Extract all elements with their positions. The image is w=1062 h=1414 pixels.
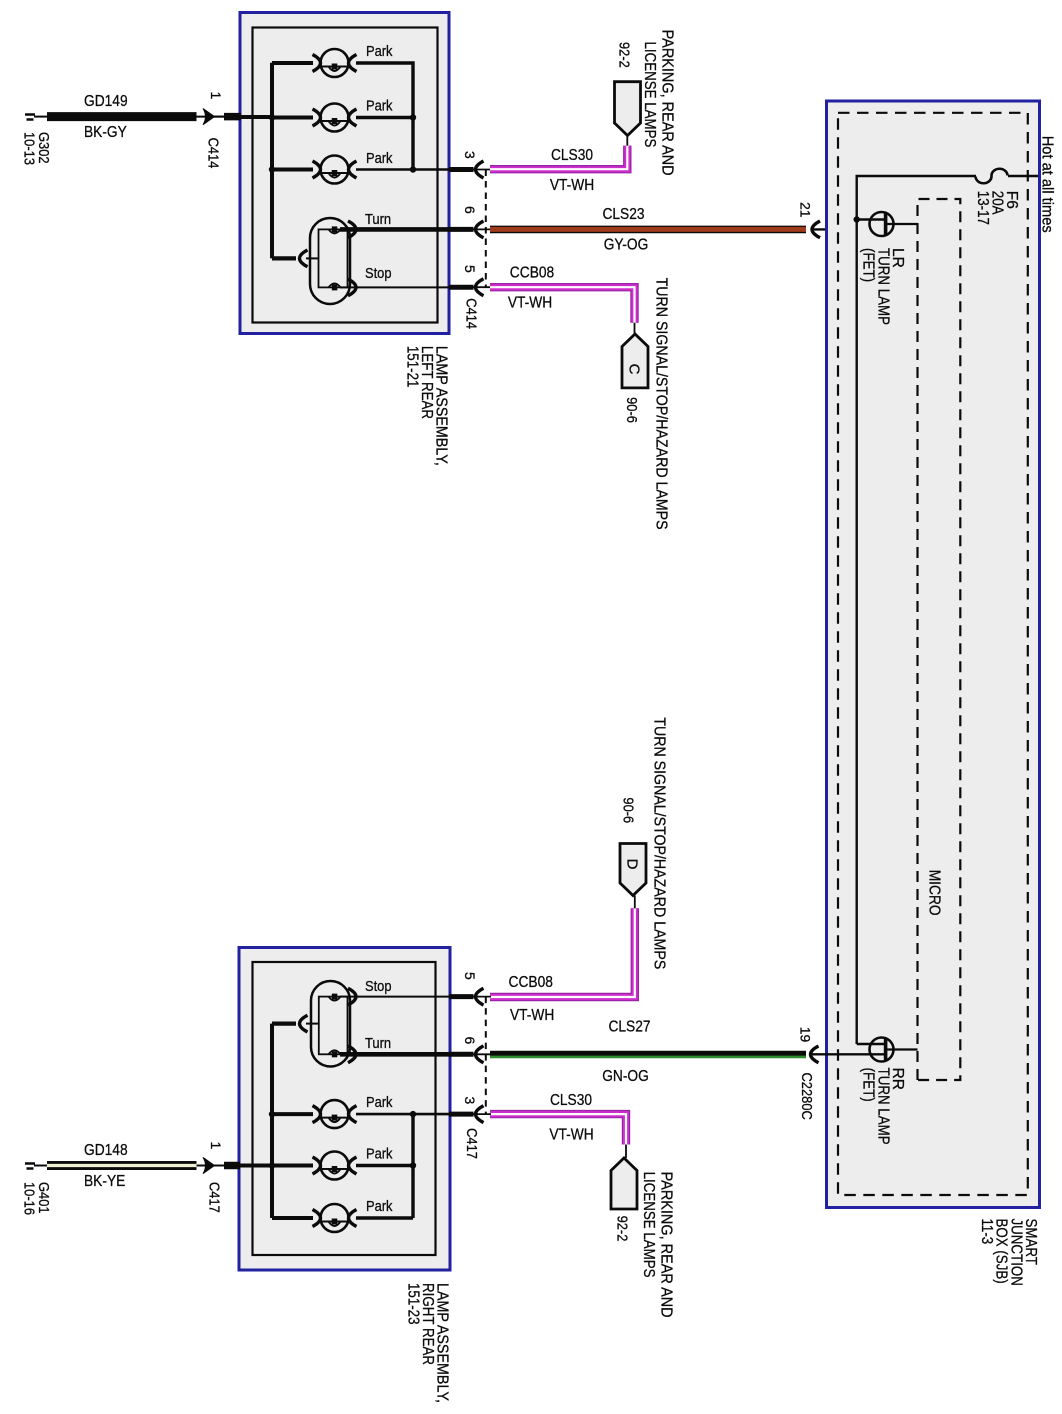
wire turn filament to pin 6 (right rear): [340, 1052, 449, 1057]
wire battery feed: [1008, 175, 1038, 177]
off-page connector D 90-6: [620, 797, 647, 908]
lamp assembly right rear box: [239, 948, 450, 1271]
svg-text:(FET): (FET): [860, 1068, 877, 1102]
off-page connector 92-2 parking lamps (top): [615, 42, 641, 146]
svg-text:VT-WH: VT-WH: [508, 295, 552, 312]
wire feed to LR FET: [857, 218, 884, 220]
wire stop filament to pin 5 (right rear): [340, 996, 449, 998]
svg-text:21: 21: [798, 202, 814, 218]
svg-text:Park: Park: [366, 150, 393, 167]
park bulb 3 (left rear): [313, 156, 357, 184]
svg-text:PARKING, REAR AND: PARKING, REAR AND: [658, 1172, 675, 1318]
svg-text:Park: Park: [366, 1094, 393, 1111]
wire CLS27 GN-OG (right rear turn): [490, 1054, 806, 1057]
wire stub park2 left: [272, 116, 313, 120]
svg-text:10-13: 10-13: [21, 132, 38, 165]
svg-text:1: 1: [208, 92, 224, 100]
svg-text:BK-GY: BK-GY: [84, 124, 127, 141]
svg-text:LICENSE LAMPS: LICENSE LAMPS: [641, 42, 658, 148]
svg-text:Park: Park: [366, 1198, 393, 1215]
svg-text:C414: C414: [205, 138, 222, 169]
svg-text:Stop: Stop: [365, 265, 392, 282]
park bulb 2 (left rear): [313, 104, 357, 132]
svg-text:LICENSE LAMPS: LICENSE LAMPS: [640, 1172, 657, 1278]
svg-text:VT-WH: VT-WH: [549, 1127, 593, 1144]
pin 6 stub and arrow: [449, 206, 491, 238]
smart junction box SJB: [827, 101, 1040, 1208]
svg-text:Stop: Stop: [365, 978, 392, 995]
svg-text:C2280C: C2280C: [798, 1073, 815, 1120]
connector C414 pin 1: [203, 92, 241, 169]
wire GD149 BK-GY (ground, left rear): [47, 112, 197, 121]
wire right bus lower (left rear lamp): [411, 118, 414, 170]
svg-text:10-16: 10-16: [21, 1182, 38, 1215]
wire feed to RR FET: [857, 1043, 884, 1045]
label PARKING, REAR AND LICENSE LAMPS (top): [641, 30, 676, 176]
label LR TURN LAMP (FET): [860, 248, 906, 325]
svg-text:92-2: 92-2: [614, 1216, 631, 1242]
ground symbol G401: [21, 1164, 53, 1216]
svg-text:CLS27: CLS27: [608, 1019, 650, 1036]
wire park2 right: [356, 116, 413, 119]
label F6 20A 13-17: [974, 191, 1020, 225]
svg-text:TURN SIGNAL/STOP/HAZARD LAMPS: TURN SIGNAL/STOP/HAZARD LAMPS: [651, 717, 668, 969]
node junction dot right bus park1 (right rear): [410, 1111, 416, 1117]
park bulb 2 (right rear): [313, 1152, 357, 1180]
svg-text:GY-OG: GY-OG: [604, 237, 649, 254]
svg-text:6: 6: [462, 206, 478, 214]
connector C417 pin 1: [203, 1142, 240, 1213]
svg-text:GD148: GD148: [84, 1142, 128, 1159]
svg-text:BK-YE: BK-YE: [84, 1173, 125, 1190]
pin 3 stub and arrow: [449, 151, 491, 178]
wire ground feed into right lamp box: [240, 1164, 272, 1168]
svg-text:90-6: 90-6: [620, 797, 637, 823]
label PARKING, REAR AND LICENSE LAMPS (bottom): [640, 1172, 675, 1318]
transistor RR TURN LAMP (FET): [870, 1038, 918, 1062]
wire CLS30 VT-WH (left rear park feed): [490, 146, 627, 170]
wire stub park3 left: [272, 168, 313, 172]
svg-text:151-23: 151-23: [404, 1283, 421, 1325]
svg-text:C: C: [626, 364, 643, 375]
wire right bus (right rear lamp): [356, 1114, 413, 1218]
node junction dot left bus park2: [269, 114, 275, 120]
wire ground feed into left lamp box: [240, 115, 272, 119]
wire stub park1 left (right rear): [272, 1112, 313, 1116]
wire park1 to pin 3 (right rear): [356, 1113, 449, 1116]
node junction dot left bus park1 (right rear): [269, 1111, 275, 1117]
connector C417 (pins 5,6,3) dashed line: [485, 997, 487, 1115]
wire CLS23 GY-OG (left rear turn): [490, 226, 806, 234]
wire CCB08 VT-WH (right rear stop): [490, 908, 635, 997]
node junction dot right bus park2 (right rear): [410, 1162, 416, 1168]
svg-text:5: 5: [462, 265, 478, 273]
node junction dot feed LR: [854, 216, 860, 222]
wire CCB08 VT-WH (left rear stop): [490, 287, 635, 323]
label LAMP ASSEMBLY, RIGHT REAR 151-23: [404, 1283, 450, 1403]
transistor LR TURN LAMP (FET): [870, 212, 918, 236]
svg-text:CCB08: CCB08: [509, 974, 553, 991]
svg-text:92-2: 92-2: [616, 42, 633, 68]
wire turn filament to pin 6: [340, 227, 449, 232]
node junction dot left bus park3: [269, 166, 275, 172]
svg-text:6: 6: [462, 1037, 478, 1045]
svg-text:Turn: Turn: [365, 211, 391, 228]
wire GD148 BK-YE (ground, right rear): [47, 1161, 224, 1170]
pin 3 stub and arrow (right rear): [449, 1097, 491, 1123]
svg-text:90-6: 90-6: [623, 397, 640, 423]
connector C414 (pins 3,6,5) dashed line: [485, 170, 487, 288]
pin 6 stub and arrow (right rear): [449, 1037, 491, 1063]
off-page connector 92-2 parking lamps (bottom): [611, 1145, 637, 1242]
ground symbol G302: [21, 115, 53, 166]
node junction dot left bus park2 (right rear): [269, 1162, 275, 1168]
svg-text:PARKING, REAR AND: PARKING, REAR AND: [659, 30, 676, 176]
pin 5 stub and arrow (right rear): [449, 972, 491, 1005]
svg-text:CLS30: CLS30: [550, 1092, 592, 1109]
svg-text:C417: C417: [463, 1128, 480, 1159]
park bulb 1 (right rear): [313, 1100, 357, 1128]
svg-text:(FET): (FET): [860, 248, 877, 282]
svg-text:TURN SIGNAL/STOP/HAZARD LAMPS: TURN SIGNAL/STOP/HAZARD LAMPS: [653, 278, 670, 530]
svg-text:Park: Park: [366, 98, 393, 115]
svg-text:19: 19: [798, 1027, 814, 1043]
turn/stop dual filament bulb (left rear): [310, 218, 350, 304]
turn/stop dual filament bulb (right rear): [311, 981, 350, 1067]
node junction dot right bus park3: [410, 166, 416, 172]
svg-text:5: 5: [462, 972, 478, 980]
wire park3 to pin 3: [356, 168, 449, 171]
wire park1 right to right bus: [356, 63, 413, 118]
svg-text:C414: C414: [463, 298, 480, 329]
wire CLS30 VT-WH (right rear park feed): [490, 1114, 626, 1144]
svg-text:Turn: Turn: [365, 1035, 391, 1052]
wire stub park2 left (right rear): [272, 1164, 313, 1168]
svg-text:D: D: [624, 859, 641, 870]
label LAMP ASSEMBLY, LEFT REAR 151-21: [403, 346, 449, 466]
node junction dot right bus park2: [410, 114, 416, 120]
wire stub park3 left (right rear): [272, 1216, 313, 1220]
svg-text:CLS23: CLS23: [602, 206, 644, 223]
label SMART JUNCTION BOX (SJB) 11-3: [978, 1219, 1039, 1286]
park bulb 1 (left rear): [313, 49, 357, 77]
wire stop filament to pin 5: [340, 286, 449, 288]
svg-text:13-17: 13-17: [974, 191, 991, 225]
svg-text:GN-OG: GN-OG: [602, 1068, 649, 1085]
wire left bus (right rear lamp): [270, 1024, 274, 1218]
wire fused feed bus: [857, 176, 976, 1044]
fuse F6 20A: [976, 169, 1008, 184]
svg-text:VT-WH: VT-WH: [550, 177, 594, 194]
lamp assembly left rear box: [240, 13, 449, 334]
SJB pin 19 arrow and C2280C: [798, 1027, 885, 1120]
svg-text:11-3: 11-3: [978, 1219, 995, 1245]
svg-text:VT-WH: VT-WH: [510, 1007, 554, 1024]
wire stub park1 left: [272, 61, 313, 65]
wire stadium left arrow to bus (right rear): [272, 1021, 296, 1025]
svg-text:Park: Park: [366, 1146, 393, 1163]
svg-text:Park: Park: [366, 43, 393, 60]
svg-text:GD149: GD149: [84, 93, 128, 110]
SJB pin 21 arrow: [798, 202, 885, 238]
svg-text:MICRO: MICRO: [926, 870, 943, 916]
micro dashed box: [918, 199, 961, 1080]
pin 5 stub and arrow: [449, 265, 491, 296]
off-page connector C 90-6: [622, 323, 648, 423]
wire stadium left arrow to bus: [272, 256, 296, 260]
svg-text:CLS30: CLS30: [551, 147, 593, 164]
svg-text:1: 1: [208, 1142, 224, 1150]
svg-text:3: 3: [462, 151, 478, 159]
svg-text:Hot at all times: Hot at all times: [1039, 136, 1056, 233]
svg-text:3: 3: [462, 1097, 478, 1105]
label RR TURN LAMP (FET): [860, 1068, 906, 1145]
svg-text:CCB08: CCB08: [510, 265, 554, 282]
park bulb 3 (right rear): [313, 1204, 357, 1232]
wire left bus (left rear lamp): [270, 63, 274, 259]
svg-text:C417: C417: [205, 1182, 222, 1213]
svg-text:151-21: 151-21: [403, 346, 420, 388]
